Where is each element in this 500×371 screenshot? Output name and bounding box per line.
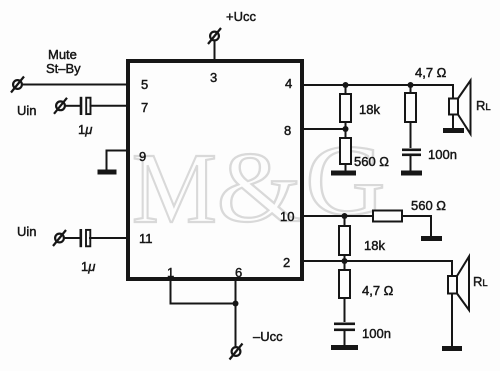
speaker RL (top): [449, 81, 471, 135]
ground (100n bottom): [331, 345, 358, 350]
connector -Ucc: [230, 344, 243, 360]
svg-text:100n: 100n: [362, 326, 391, 341]
wire pin1 down and across: [171, 279, 236, 304]
connector Uin bottom: [53, 230, 66, 246]
ground (speaker top): [443, 128, 464, 133]
resistor 4.7 Ohm (bottom): [339, 270, 350, 298]
capacitor C1 1µ (top input): [80, 97, 91, 115]
wire pin5 (mute): [22, 84, 128, 86]
wire C100n to ground: [410, 156, 412, 171]
svg-text:4: 4: [285, 76, 292, 91]
resistor 18k (top): [340, 94, 351, 122]
svg-text:Uin: Uin: [17, 224, 37, 239]
svg-text:6: 6: [235, 265, 242, 280]
svg-text:11: 11: [139, 231, 153, 246]
svg-text:2: 2: [283, 255, 290, 270]
svg-text:&: &: [217, 131, 302, 243]
svg-text:10: 10: [280, 209, 294, 224]
svg-text:7: 7: [141, 100, 148, 115]
wire C100n to ground (bottom): [344, 331, 346, 345]
wire C2 to pin11: [89, 237, 128, 239]
wire node A to R 18k: [345, 85, 347, 94]
svg-text:3: 3: [210, 70, 217, 85]
svg-text:1μ: 1μ: [78, 122, 92, 137]
node A (pin4/18k): [343, 82, 349, 88]
resistor 560 Ohm (top): [340, 138, 351, 164]
wire C1 to pin7: [90, 105, 129, 107]
wire node D to R 4.7 (bottom): [344, 261, 346, 270]
wire pin9 to ground: [107, 151, 129, 171]
node B (pin4/4.7): [408, 82, 414, 88]
wire node B to R 4.7: [410, 85, 412, 93]
ground (pin 9): [98, 170, 117, 175]
svg-text:+Ucc: +Ucc: [226, 9, 256, 24]
node D (pin2/18k/4.7): [342, 258, 348, 264]
wire R18k to node D: [344, 255, 346, 261]
svg-text:560 Ω: 560 Ω: [411, 198, 446, 213]
node C (pin10/18k): [342, 213, 348, 219]
op-amp IC U1 (main amplifier box): [128, 61, 302, 279]
wire node C to R 18k (bottom): [344, 216, 346, 226]
svg-text:18k: 18k: [359, 102, 380, 117]
svg-text:560 Ω: 560 Ω: [354, 154, 389, 169]
wire R18k to node: [345, 122, 347, 138]
wire 560 to ground (bottom): [402, 216, 431, 236]
svg-text:1μ: 1μ: [81, 259, 95, 274]
wire pin4 to speaker (top rail): [302, 85, 453, 99]
connector +Ucc: [208, 28, 221, 44]
wire pin3 to +Ucc: [214, 41, 216, 62]
svg-text:18k: 18k: [364, 238, 385, 253]
watermark M&G: [132, 133, 217, 245]
ground (560 bottom): [421, 236, 442, 241]
resistor 560 Ohm (bottom, horizontal): [373, 211, 402, 222]
svg-text:Uin: Uin: [17, 103, 37, 118]
wire pin6 down to -Ucc: [235, 279, 237, 347]
ground (100n top): [401, 171, 422, 176]
svg-text:8: 8: [284, 123, 291, 138]
speaker RL (bottom): [448, 257, 469, 311]
ground (speaker bottom): [442, 346, 462, 351]
svg-text:–Ucc: –Ucc: [253, 329, 283, 344]
capacitor C2 1µ (bottom input): [80, 229, 91, 247]
resistor 4.7 Ohm (top): [405, 93, 416, 122]
svg-text:9: 9: [139, 149, 146, 164]
wire connector to C1: [65, 105, 80, 107]
svg-text:5: 5: [141, 77, 148, 92]
wire pin2 to speaker (bottom rail): [302, 261, 452, 276]
svg-text:1: 1: [167, 265, 174, 280]
connector Uin top: [54, 98, 67, 114]
capacitor 100n (bottom): [334, 323, 355, 332]
svg-text:4,7 Ω: 4,7 Ω: [362, 283, 394, 298]
svg-text:St–By: St–By: [46, 61, 81, 76]
wire R4.7 to C 100n (bottom): [344, 298, 346, 322]
wire R4.7 to C 100n: [410, 122, 412, 148]
svg-text:4,7 Ω: 4,7 Ω: [415, 65, 447, 80]
wire speaker to ground (top): [452, 115, 454, 129]
svg-text:Mute: Mute: [48, 47, 77, 62]
wire 560 to ground: [345, 164, 347, 171]
capacitor 100n (top): [402, 149, 421, 157]
wire pin8: [302, 128, 346, 130]
ground (560 top): [331, 171, 356, 176]
node pin8/560: [343, 126, 349, 132]
wire pin10: [302, 215, 373, 217]
wire connector to C2: [64, 237, 80, 239]
connector Mute/St-By input: [11, 77, 24, 93]
resistor 18k (bottom): [339, 226, 350, 255]
wire speaker to ground (bottom): [451, 294, 453, 347]
svg-text:100n: 100n: [428, 147, 457, 162]
node junction pin1/pin6: [233, 301, 239, 307]
